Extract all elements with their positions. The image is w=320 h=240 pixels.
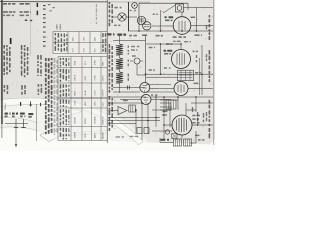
wire V6 leads: [164, 124, 213, 126]
svg-text:YE8XM: YE8XM: [75, 117, 77, 124]
label b5: [203, 113, 204, 118]
wire mid horizontals: [152, 110, 172, 131]
title block col2 line 1: [20, 3, 25, 5]
svg-text:CDX: CDX: [103, 102, 105, 107]
left note colA block2 line 1: [4, 85, 6, 88]
watermark bottom-left white corner: [0, 128, 40, 151]
left note colA line 3: [9, 47, 11, 50]
watermark diamond wing: [40, 129, 62, 142]
title block col2 line 2a: [20, 11, 23, 13]
wire long rail y77: [146, 76, 178, 78]
wire V6 cathode: [181, 135, 183, 139]
wire antenna lead: [112, 16, 137, 18]
title block line 1: [3, 3, 7, 5]
label V3 type b: [164, 53, 168, 55]
wire heavy vertical bus: [128, 2, 130, 31]
left note colC block2 line 2: [41, 84, 43, 87]
wire enclosure box: [139, 3, 188, 31]
filter choke box: [166, 100, 176, 109]
tube V5 small rectifier: [141, 95, 151, 105]
svg-text:9YR3: 9YR3: [95, 75, 97, 81]
label ant: [114, 25, 117, 27]
label over wire y44 b: [131, 49, 135, 50]
title block line 2b: [3, 15, 5, 17]
paragraph blob line 2: [48, 58, 50, 61]
wire plate lead: [191, 25, 213, 27]
table hdr blob b: [63, 58, 65, 60]
oscillator coil circle A: [137, 16, 145, 24]
table hdr blob d: [68, 128, 69, 132]
tube V4: [174, 82, 188, 96]
wire right vertical rail: [201, 45, 203, 95]
table hdr blob d: [68, 100, 69, 104]
tiny marks under col2: [25, 20, 27, 21]
mini hdr blob a: [55, 33, 57, 36]
table hdr blob b: [63, 84, 65, 88]
left note colA line 2: [6, 45, 8, 47]
svg-text:NKCS: NKCS: [75, 74, 77, 80]
title block col2 line 2b: [20, 15, 25, 17]
table hdr blob b: [63, 99, 65, 103]
table hdr blob b: [63, 128, 65, 132]
svg-text:BNDBH: BNDBH: [103, 131, 105, 139]
table hdr blob c: [66, 85, 68, 88]
divider col mid 2: [111, 46, 113, 50]
wire y100 y107 segments: [160, 100, 196, 110]
wire rail y97 right: [151, 96, 213, 98]
label left of V6 a: [163, 111, 168, 113]
wire long horizontal rail: [128, 30, 213, 32]
svg-text:8PZVY: 8PZVY: [85, 117, 87, 124]
junction dots bottom: [155, 96, 157, 98]
left note colC line 1: [37, 55, 39, 60]
left note colB block2 line 1: [21, 85, 23, 90]
battery B1: [174, 139, 182, 146]
mixer tube circle around X: [118, 13, 126, 21]
white bottom band (page edge): [0, 140, 215, 152]
svg-text:6L4M: 6L4M: [85, 90, 87, 95]
svg-text:3DNN4: 3DNN4: [5, 103, 7, 110]
speaker label 4b: [28, 116, 32, 118]
mini right col blob 1: [102, 33, 104, 37]
watermark arrow tip: [57, 105, 82, 119]
paper background: [0, 0, 215, 151]
label above coils: [130, 10, 132, 11]
speaker label 3: [20, 113, 25, 115]
wire V5 leads: [120, 99, 171, 101]
thin drop wire x=36.5: [36, 104, 38, 141]
table hdr blob b: [63, 69, 65, 74]
table hdr blob a: [60, 84, 62, 88]
label grid: [166, 43, 169, 45]
speaker label 2b: [12, 116, 15, 118]
label b2: [123, 100, 128, 102]
speaker plug wires: [16, 119, 24, 128]
left note colC line 2: [40, 55, 42, 60]
left note colB block2 line 2: [24, 85, 26, 89]
label V1 pin: [191, 17, 196, 19]
svg-text:DTW: DTW: [95, 60, 97, 65]
table hdr blob d: [68, 58, 69, 60]
mini hdr blob e: [66, 34, 67, 36]
oscillator coil circle B: [143, 22, 151, 30]
label right of V6 b: [192, 118, 195, 120]
label over wire y44 a: [131, 46, 135, 47]
right margin blob 5: [206, 54, 207, 58]
big table grid: [58, 57, 107, 141]
wire battery lead: [160, 138, 173, 143]
wire C1 lead down: [137, 64, 146, 75]
wire right vertical rail 2: [199, 58, 201, 95]
wire long rail y74: [146, 73, 213, 75]
capacitor block C10: [137, 128, 142, 134]
label top left: [115, 7, 118, 9]
svg-text:YAWK: YAWK: [59, 23, 62, 30]
wire diagonal lead: [163, 5, 176, 13]
section divider rule: [106, 0, 108, 143]
resistor R2: [116, 58, 123, 69]
label right of V6 c: [192, 122, 195, 124]
watermark lower small curve: [0, 117, 38, 123]
table hdr blob a: [60, 99, 62, 104]
label under V1: [173, 36, 177, 38]
mini table grid: [53, 32, 107, 54]
paragraph blob line 1: [45, 58, 47, 61]
svg-text:CMDP7G: CMDP7G: [103, 116, 105, 125]
table hdr blob a: [60, 109, 62, 113]
wire phono output: [184, 7, 214, 9]
wire to speaker: [108, 110, 118, 112]
label left of T2: [164, 67, 167, 69]
table hdr blob c: [66, 69, 68, 74]
speaker label 3b: [20, 116, 23, 118]
svg-text:W38W: W38W: [75, 132, 77, 138]
label under rail 1: [129, 35, 132, 37]
label mid: [149, 47, 153, 49]
junction dots mid: [160, 43, 162, 45]
label right of V6 a: [192, 115, 195, 117]
label under rail 2: [142, 34, 147, 36]
table hdr blob c: [66, 58, 68, 62]
wire V3 top cap: [166, 44, 181, 49]
label above V3 a: [173, 41, 176, 42]
table hdr blob d: [68, 85, 69, 87]
faint rule x=30.5: [30, 3, 32, 56]
table hdr blob d: [68, 69, 69, 73]
bottom-right white corner: [204, 139, 215, 151]
table hdr blob b: [63, 109, 65, 112]
plug drop wire with arrow: [15, 128, 17, 147]
wire upper horizontals: [108, 97, 146, 103]
speaker cone triangle: [118, 107, 127, 115]
wire vertical drop right: [196, 8, 198, 32]
battery B2: [184, 139, 192, 146]
junction X: [119, 14, 125, 20]
sparse index marks column: [43, 5, 46, 6]
mini hdr blob c: [61, 34, 63, 37]
table hdr blob a: [60, 69, 62, 72]
capacitor bars on lower wires: [128, 86, 130, 90]
label right of V3: [196, 55, 197, 58]
speaker label 2: [12, 113, 15, 115]
trimmer C1: [134, 58, 140, 64]
wire y103 segments: [160, 102, 213, 104]
pilot lamp: [165, 130, 169, 134]
label under rail 3: [156, 35, 160, 37]
jack J1: [132, 3, 138, 9]
paragraph blob line 5: [56, 60, 58, 64]
label under rail 4: [195, 34, 200, 36]
mini hdr blob b: [58, 33, 60, 38]
tiny marks top middle: [48, 4, 50, 5]
table hdr blob a: [60, 58, 62, 61]
paragraph blob line 3: [51, 58, 53, 60]
watermark light zone lower-left: [0, 98, 148, 151]
left note colB line 3: [27, 47, 29, 51]
faint col above table: [96, 4, 97, 7]
table hdr blob c: [66, 110, 68, 114]
label mid2: [149, 69, 153, 71]
wire to tube V1: [152, 25, 173, 27]
label left of batteries: [161, 139, 166, 141]
wire resistor chain: [119, 35, 121, 93]
label b1: [151, 94, 153, 96]
speaker label 4: [28, 113, 33, 115]
label V3 pin: [193, 51, 195, 53]
top page-edge line: [0, 1, 107, 3]
wire y84 stub: [146, 84, 171, 86]
label right col of V6: [197, 112, 198, 116]
tube V2 small: [140, 83, 150, 93]
big table heavy row line: [58, 97, 107, 99]
label left of V6 b: [162, 114, 167, 116]
label V4 pin: [194, 83, 199, 85]
label R1 value: [128, 46, 129, 48]
wire speaker stub: [5, 123, 28, 125]
junction dots on rail: [138, 30, 140, 32]
output transformer small box: [129, 105, 136, 112]
exclamation marks column: [37, 3, 39, 7]
small box with X: [172, 134, 177, 139]
divider col top 1: [109, 2, 111, 4]
wire vertical drops right: [178, 97, 196, 115]
label below bus a: [116, 136, 121, 137]
tube V1 6SQ7: [173, 17, 191, 35]
left page-edge dark bar: [1, 0, 2, 124]
right margin blob 3: [209, 100, 211, 104]
IF transformer T2: [178, 70, 194, 81]
label T2: [195, 72, 198, 74]
dark blob label: [108, 33, 112, 35]
wire vertical drops: [136, 97, 170, 140]
watermark main band: [0, 98, 143, 145]
wire center vertical rail: [145, 35, 147, 82]
divider col top 2: [111, 4, 113, 8]
right margin blob 1: [209, 15, 211, 18]
table hdr blob c: [66, 128, 68, 132]
table hdr blob c: [66, 100, 68, 104]
svg-text:785E: 785E: [85, 133, 87, 138]
label V1 type b: [165, 20, 170, 22]
left note colC block2 line 1: [38, 84, 40, 87]
wire V4 leads: [150, 88, 213, 90]
paragraph blob line 4: [54, 58, 56, 63]
label osc: [153, 14, 156, 15]
wire output drop: [190, 131, 196, 143]
resistor R1: [116, 44, 123, 55]
svg-text:6GKVH: 6GKVH: [103, 89, 105, 96]
wire bus lines: [108, 118, 160, 124]
speaker label 1b: [5, 116, 8, 118]
tick marks on curve: [20, 102, 21, 106]
mini right col blob 2: [105, 33, 107, 37]
label R3 value: [128, 74, 129, 77]
divider col bottom 1: [109, 96, 111, 100]
table light paper: [54, 32, 107, 140]
right margin blob 6: [206, 25, 207, 29]
left note colB line 1: [21, 45, 23, 50]
label above V3 b: [184, 41, 188, 42]
speaker label 1: [5, 113, 8, 115]
left note colB line 2: [24, 45, 26, 47]
mini hdr blob d: [64, 34, 66, 38]
label b3: [192, 107, 193, 112]
svg-text:ABH2: ABH2: [94, 132, 97, 138]
label C1: [132, 55, 136, 57]
label b4: [195, 135, 199, 137]
tube V6 output: [172, 115, 192, 135]
resistor R3: [116, 72, 123, 83]
watermark lower-left curve: [0, 127, 38, 131]
watermark tail double lines: [62, 131, 108, 137]
label b6: [198, 139, 201, 141]
svg-text:GXW: GXW: [75, 101, 77, 106]
divider col mid 1: [109, 44, 111, 48]
label V1 type: [165, 16, 167, 18]
svg-text:2BO: 2BO: [95, 37, 97, 41]
wire grid lead: [146, 43, 171, 45]
scan noise speckle: [142, 22, 143, 25]
table hdr blob d: [68, 110, 69, 113]
label V3 type: [164, 50, 167, 52]
capacitor block C11: [144, 128, 149, 134]
right page-edge line: [213, 0, 215, 145]
svg-text:TYX: TYX: [73, 47, 75, 52]
bold exclamation mid-left: [10, 38, 12, 44]
svg-text:GGRDA: GGRDA: [94, 116, 97, 124]
wire horizontal y40: [113, 40, 146, 42]
tube V3 6SK7: [172, 50, 191, 69]
right margin blob 2: [209, 50, 211, 55]
wire vertical x160: [160, 44, 162, 74]
wire top cap: [181, 12, 183, 17]
right margin blob 4: [206, 112, 207, 116]
wire y110 segment: [160, 109, 172, 111]
label R2 value: [128, 60, 129, 62]
phono jack box: [176, 4, 184, 12]
table hdr blob a: [60, 128, 62, 131]
left note colA line 1: [3, 45, 5, 49]
left note colA block2 line 2: [7, 85, 9, 90]
svg-text:K3X: K3X: [84, 48, 86, 52]
label below bus b: [130, 136, 134, 137]
divider col bottom 2: [111, 98, 113, 101]
svg-text:Z40T: Z40T: [85, 75, 87, 80]
svg-text:KNE: KNE: [75, 60, 77, 65]
wire vertical drop: [160, 10, 162, 31]
wire y92 right segment: [146, 91, 174, 93]
dark blob label 2: [117, 34, 122, 36]
wire lower horizontals: [113, 88, 145, 93]
title block line 2a: [3, 11, 8, 13]
wire box right edge: [187, 3, 189, 10]
